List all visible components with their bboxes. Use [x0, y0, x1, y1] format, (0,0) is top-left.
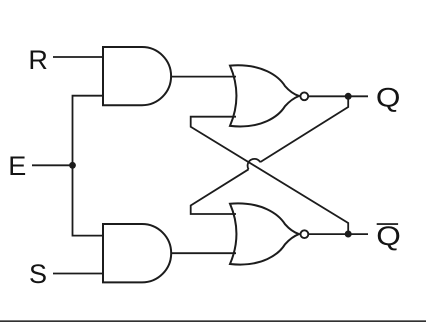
wire hop arc on Q feedback	[248, 159, 261, 169]
wire U3 output to Q	[308, 95, 368, 97]
inversion bubble of U3	[300, 92, 308, 100]
overline of Qbar	[377, 223, 398, 225]
wire U4 output to Qbar	[308, 233, 368, 235]
wire E branch up to top AND	[73, 96, 105, 168]
AND gate U1 (top)	[103, 47, 171, 105]
svg-text:S: S	[29, 259, 47, 289]
svg-text:R: R	[28, 45, 48, 75]
NOR gate U4 (bottom)	[230, 203, 299, 264]
node E junction dot	[69, 162, 76, 169]
svg-text:E: E	[8, 151, 26, 181]
wire S input	[53, 273, 104, 275]
AND gate U2 (bottom)	[103, 224, 171, 282]
node Q junction dot	[345, 93, 352, 100]
wire R input	[53, 56, 104, 58]
wire E input	[32, 164, 73, 166]
wire E branch down to bottom AND	[73, 163, 105, 236]
NOR gate U3 (top)	[230, 65, 299, 126]
wire feedback from Q to U4 upper input (with hop)	[191, 96, 349, 214]
bottom rule line	[0, 320, 426, 322]
wire feedback from Qbar to U3 lower input	[191, 117, 349, 234]
wire U1 output to U3 input	[171, 76, 237, 78]
svg-text:Q: Q	[376, 221, 401, 251]
wire U2 output to U4 input	[171, 252, 237, 254]
node Qbar junction dot	[345, 231, 352, 238]
svg-text:Q: Q	[376, 83, 401, 113]
inversion bubble of U4	[301, 230, 309, 238]
